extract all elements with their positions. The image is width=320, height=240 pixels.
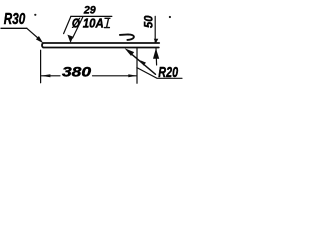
R20 lower stroke bbox=[137, 68, 182, 79]
dim 380 right extension line bbox=[136, 48, 138, 83]
speck near R30 bbox=[34, 14, 36, 16]
R30 leader line bbox=[27, 28, 40, 40]
R30 underline shelf bbox=[1, 27, 27, 29]
svg-text:50: 50 bbox=[141, 15, 155, 28]
callout leader arrowhead bbox=[67, 35, 73, 43]
dim 50 down arrowhead at rod top bbox=[154, 39, 159, 43]
R20 leader line bbox=[130, 53, 156, 75]
R30 leader arrowhead bbox=[36, 36, 43, 43]
callout shelf line bbox=[71, 15, 112, 17]
dim 50 up arrowhead at rod bottom bbox=[153, 48, 159, 59]
dim 380 right arrowhead bbox=[128, 74, 137, 77]
callout leader shaft bbox=[73, 17, 83, 38]
dim 380 line bbox=[41, 75, 137, 77]
R20 leader mid bulge bbox=[140, 60, 146, 65]
dim 380 left arrowhead bbox=[41, 74, 51, 77]
svg-text:10A: 10A bbox=[83, 17, 104, 31]
svg-text:R30: R30 bbox=[4, 11, 26, 28]
hook curl at rod right area bbox=[120, 34, 134, 40]
svg-text:29: 29 bbox=[83, 5, 97, 17]
callout slash stroke bbox=[64, 16, 71, 33]
fit-class I mark after A bbox=[104, 18, 110, 27]
speck right of 50 bbox=[169, 16, 171, 18]
dim 380 left extension line bbox=[40, 50, 42, 83]
svg-text:R20: R20 bbox=[158, 65, 178, 81]
rod body outline bbox=[42, 43, 159, 48]
svg-text:380: 380 bbox=[62, 64, 92, 79]
dim 50 vertical line bbox=[155, 16, 156, 65]
R20 leader arrowhead bbox=[125, 48, 135, 56]
